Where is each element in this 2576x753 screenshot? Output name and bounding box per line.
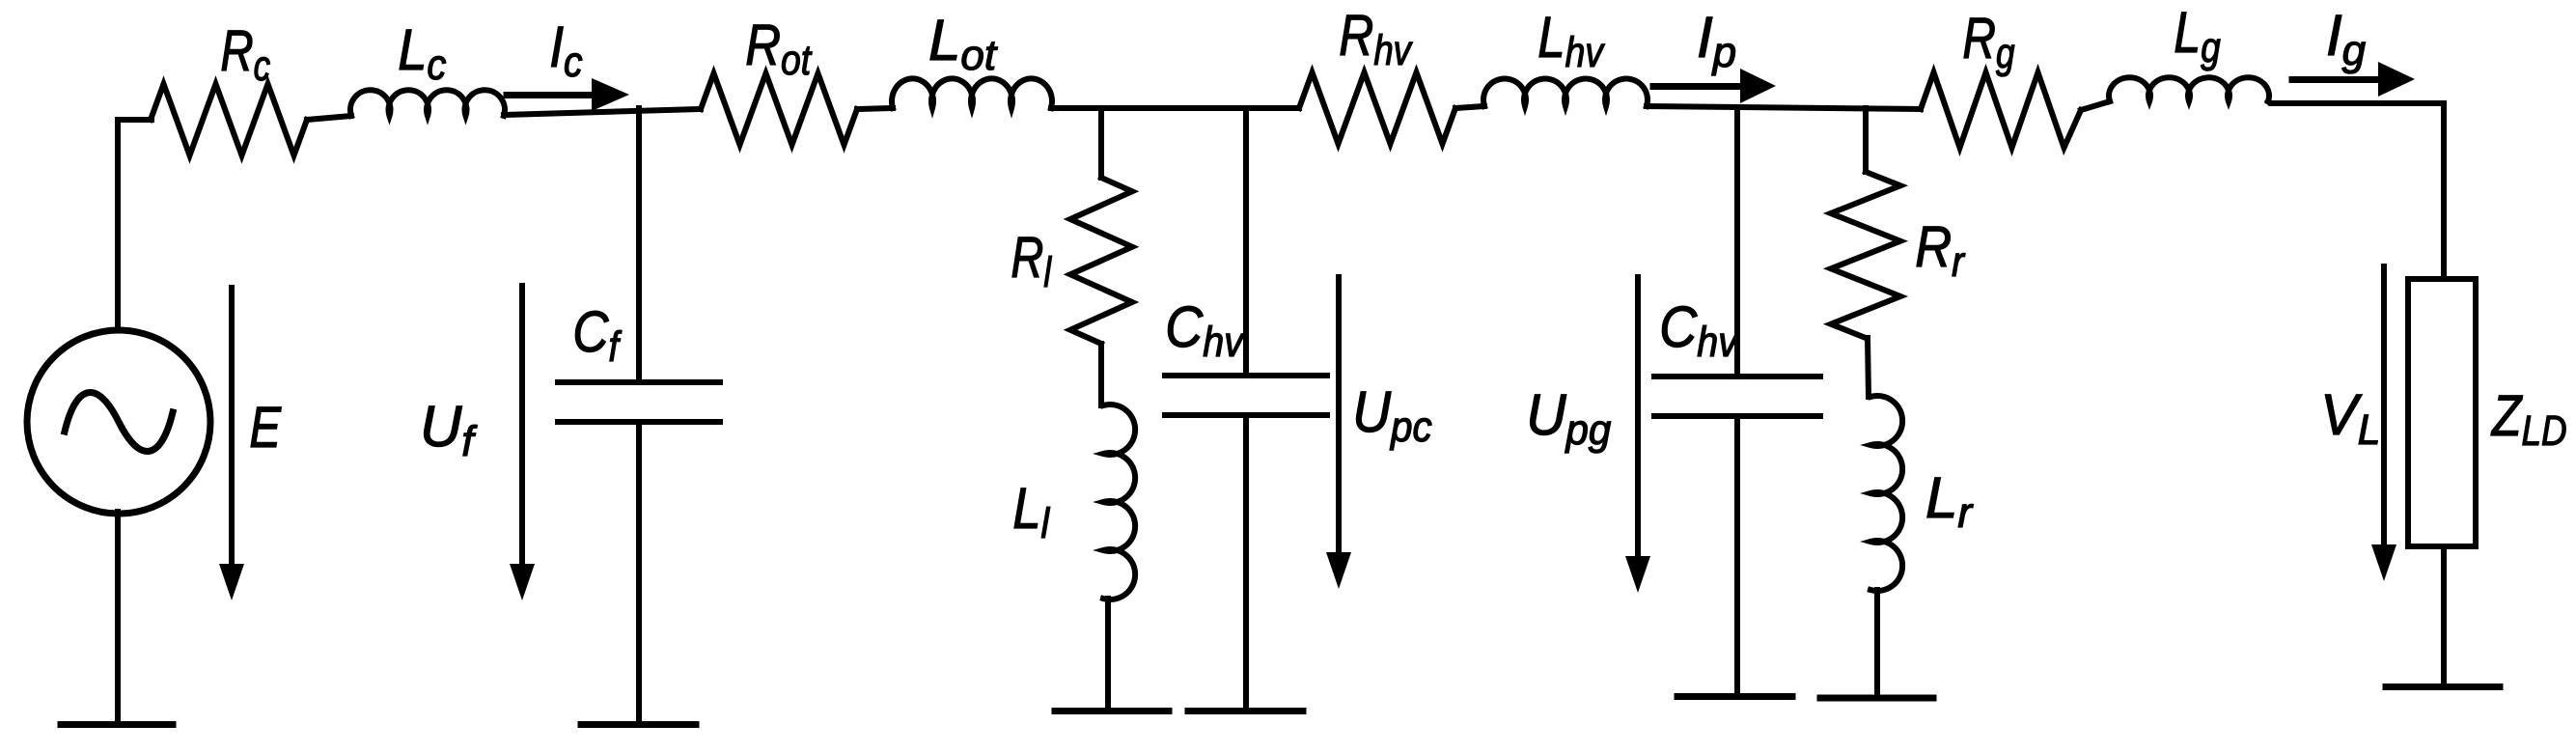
load Z_LD (rectangle) — [2408, 279, 2476, 546]
wire L_l to ground — [1105, 599, 1111, 710]
node: wire down to R_l — [1098, 108, 1104, 178]
svg-text:Lc: Lc — [398, 17, 446, 89]
wire L_ot to R_hv (through nodes) — [1051, 105, 1299, 111]
svg-text:Lg: Lg — [2174, 0, 2221, 71]
svg-text:Ll: Ll — [1012, 476, 1050, 547]
capacitor C_f — [558, 382, 720, 422]
arrow U_pc — [1326, 277, 1351, 589]
ac source sine symbol — [65, 393, 173, 452]
svg-text:Rhv: Rhv — [1339, 3, 1413, 74]
ground (C_hv1) — [1188, 708, 1303, 714]
wire C_hv2 to ground — [1734, 419, 1740, 695]
arrow I_p — [1653, 69, 1776, 103]
inductor L_ot — [892, 78, 1052, 108]
inductor L_g — [2109, 77, 2269, 101]
svg-text:Uf: Uf — [420, 394, 478, 465]
wire R_l to L_l — [1098, 344, 1104, 405]
capacitor C_hv (first) — [1165, 376, 1327, 415]
wire R_hv to L_hv — [1455, 106, 1484, 108]
svg-text:Chv: Chv — [1165, 294, 1245, 366]
wire Z_LD to ground — [2441, 546, 2447, 685]
arrow I_c — [507, 78, 629, 111]
svg-text:Lot: Lot — [928, 8, 998, 79]
arrow U_f — [510, 286, 535, 600]
ground (L_l) — [1055, 708, 1169, 714]
resistor R_g — [1921, 72, 2081, 148]
resistor R_c — [151, 84, 307, 155]
wire L_g to load corner — [2268, 101, 2444, 279]
svg-text:Lhv: Lhv — [1537, 5, 1605, 76]
wire source-bottom to ground — [115, 512, 121, 723]
ground (source) — [61, 721, 173, 728]
svg-text:Ip: Ip — [1697, 5, 1736, 76]
svg-text:Ic: Ic — [549, 14, 582, 86]
resistor R_l — [1070, 178, 1132, 344]
svg-text:VL: VL — [2320, 382, 2380, 454]
node: wire down to C_hv1 — [1243, 108, 1249, 373]
wire C_f to ground — [636, 425, 642, 723]
node: wire down to C_hv2 — [1734, 107, 1740, 374]
ground (C_f) — [581, 721, 696, 728]
svg-text:E: E — [249, 395, 281, 460]
node: wire down to R_r — [1863, 108, 1869, 172]
resistor R_r — [1831, 172, 1900, 338]
capacitor C_hv (second) — [1654, 376, 1820, 416]
arrow I_g — [2292, 62, 2415, 97]
ground (Z_LD) — [2386, 683, 2500, 690]
svg-text:Chv: Chv — [1659, 294, 1739, 366]
ground (C_hv2) — [1677, 693, 1792, 700]
wire L_r to ground — [1874, 590, 1880, 697]
arrow E — [219, 288, 244, 600]
svg-text:Lr: Lr — [1925, 465, 1974, 537]
arrow U_pg — [1625, 277, 1650, 593]
inductor L_l — [1103, 404, 1135, 600]
svg-text:Upg: Upg — [1526, 382, 1612, 454]
node Cf: wire down to capacitor — [636, 108, 642, 379]
arrow V_L — [2371, 266, 2396, 581]
wire source-top to R_c — [118, 120, 152, 330]
inductor L_r — [1870, 396, 1902, 591]
wire C_hv1 to ground — [1243, 418, 1249, 710]
wire L_c to node Cf — [504, 109, 701, 115]
svg-text:Rr: Rr — [1915, 214, 1966, 286]
wire R_g to L_g — [2081, 101, 2110, 110]
svg-text:Rot: Rot — [745, 13, 812, 84]
svg-text:Rl: Rl — [1011, 225, 1052, 296]
svg-text:Ig: Ig — [2326, 3, 2367, 74]
wire L_hv to R_g (through nodes) — [1647, 106, 1921, 109]
svg-text:Rg: Rg — [1962, 6, 2014, 77]
ac source E (circle) — [27, 330, 210, 514]
resistor R_hv — [1299, 72, 1455, 144]
wire R_r to L_r — [1868, 338, 1869, 397]
inductor L_hv — [1483, 78, 1648, 106]
wire R_c to L_c — [307, 116, 351, 120]
wire R_ot to L_ot — [857, 108, 893, 109]
svg-text:Upc: Upc — [1352, 379, 1431, 451]
resistor R_ot — [701, 73, 857, 145]
svg-text:Rc: Rc — [220, 18, 270, 90]
inductor L_c — [350, 90, 505, 116]
ground (L_r) — [1820, 695, 1933, 702]
svg-text:ZLD: ZLD — [2490, 383, 2566, 455]
svg-text:Cf: Cf — [572, 299, 623, 371]
